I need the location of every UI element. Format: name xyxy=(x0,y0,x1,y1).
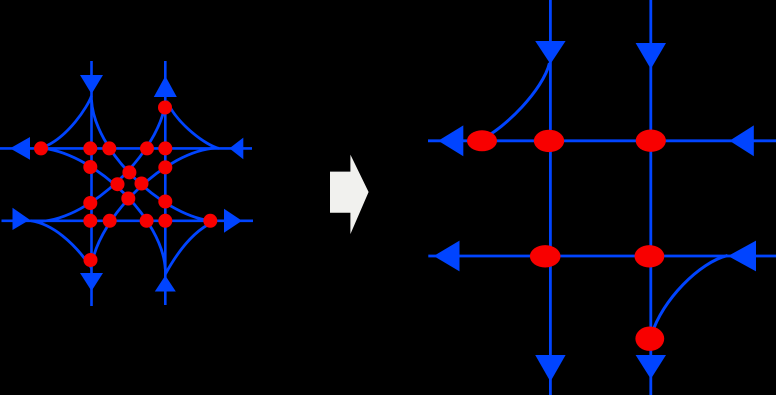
node merge west xyxy=(34,141,48,155)
arrow H2 right exit (right) xyxy=(224,209,242,233)
wire V2 northbound lane (left diagram) xyxy=(164,61,167,305)
node merge ellipse E6 xyxy=(635,327,664,351)
wire right-turn curve west-to-north xyxy=(167,101,219,148)
arrow VB bottom (down) xyxy=(636,355,666,379)
node conflict ellipse E5 VBxHB xyxy=(635,245,665,267)
node merge east xyxy=(203,214,217,228)
node conflict NBLxV1 xyxy=(83,160,97,174)
wire left-turn curve east-to-north xyxy=(41,104,166,222)
arrow HA right entry (left) xyxy=(730,125,754,156)
wire right-turn curve north-to-east xyxy=(165,222,213,274)
wire HB one-way street left (right diagram) xyxy=(428,255,776,258)
node merge south xyxy=(84,253,98,267)
wire right-turn curve south-to-west xyxy=(44,96,92,147)
arrow V1 bottom exit (down) xyxy=(80,273,103,291)
arrow VB top (down) xyxy=(636,43,666,69)
arrow V2 top exit (up) xyxy=(154,76,177,97)
wire left-turn curve north-to-west xyxy=(44,148,165,269)
node conflict SBLxWBL xyxy=(135,177,149,191)
node conflict SBLxEBL xyxy=(122,165,136,179)
node conflict ellipse E3 VBxHA xyxy=(636,130,666,152)
wire left-turn curve west-to-south xyxy=(92,148,217,266)
arrow H1 left exit (left) xyxy=(10,137,30,160)
arrow HB right entry (left) xyxy=(728,241,756,272)
arrow VA bottom (down) xyxy=(535,355,565,382)
arrow HB left (left) xyxy=(434,241,460,272)
arrow H1 right entry (left) xyxy=(229,138,243,160)
wire V1 southbound lane (left diagram) xyxy=(90,61,93,306)
wire H2 eastbound lane (left diagram) xyxy=(2,220,254,223)
node conflict EBLxV1 xyxy=(83,196,97,210)
node conflict WBLxV2 xyxy=(158,160,172,174)
wire right-turn curve VA-to-HA xyxy=(482,63,550,139)
wire HA one-way street left (right diagram) xyxy=(428,139,776,142)
node conflict NBLxWBL xyxy=(121,192,135,206)
node conflict NBLxEBL xyxy=(111,177,125,191)
arrow V2 bottom entry (up) xyxy=(155,276,176,292)
arrow VA top (down) xyxy=(535,41,565,64)
big white transform arrow xyxy=(330,155,369,235)
node conflict V1xH1 xyxy=(83,141,97,155)
wire H1 westbound lane (left diagram) xyxy=(0,147,252,150)
arrow HA left (left) xyxy=(438,125,463,156)
node conflict V2xH2 xyxy=(158,214,172,228)
node conflict WBLxH2 xyxy=(103,214,117,228)
node conflict V2xH1 xyxy=(158,141,172,155)
node conflict EBLxH1 xyxy=(140,141,154,155)
arrow V1 top entry (down) xyxy=(80,75,103,94)
node conflict V1xH2 xyxy=(83,214,97,228)
arrow H2 left entry (right) xyxy=(13,208,30,230)
wire right-turn curve east-to-south xyxy=(31,221,92,268)
wire VA one-way street down (right diagram) xyxy=(549,0,552,395)
node conflict NBLxH2 xyxy=(140,214,154,228)
node conflict ellipse E4 VAxHB xyxy=(530,245,561,267)
node merge north xyxy=(158,101,172,115)
wire left-turn curve south-to-east xyxy=(92,100,211,221)
node conflict SBLxV2 xyxy=(158,195,172,209)
node conflict SBLxH1 xyxy=(102,141,116,155)
node conflict ellipse E2 VAxHA xyxy=(534,130,564,152)
wire VB one-way street down (right diagram) xyxy=(649,0,652,395)
wire right-turn curve HB-to-VB xyxy=(652,256,728,336)
node merge ellipse E1 xyxy=(467,130,497,151)
